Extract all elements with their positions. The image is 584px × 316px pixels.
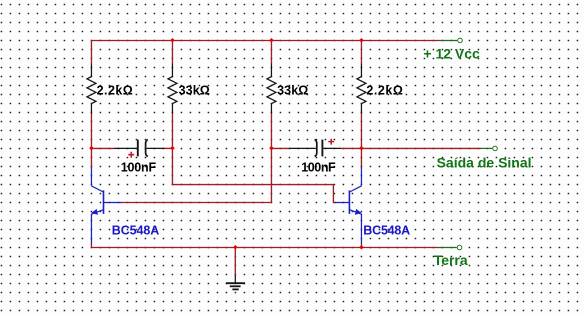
svg-text:Saída de Sinal: Saída de Sinal bbox=[437, 155, 532, 171]
svg-text:+ 12 Vcc: + 12 Vcc bbox=[423, 45, 480, 61]
svg-text:100nF: 100nF bbox=[301, 161, 336, 175]
svg-text:100nF: 100nF bbox=[121, 160, 157, 174]
svg-text:BC548A: BC548A bbox=[363, 224, 410, 238]
svg-text:Terra: Terra bbox=[434, 252, 468, 268]
svg-text:33kΩ: 33kΩ bbox=[277, 84, 308, 98]
svg-text:BC548A: BC548A bbox=[112, 224, 160, 238]
svg-text:2.2kΩ: 2.2kΩ bbox=[97, 84, 133, 98]
svg-text:33kΩ: 33kΩ bbox=[179, 84, 210, 98]
svg-text:2.2kΩ: 2.2kΩ bbox=[366, 84, 403, 98]
